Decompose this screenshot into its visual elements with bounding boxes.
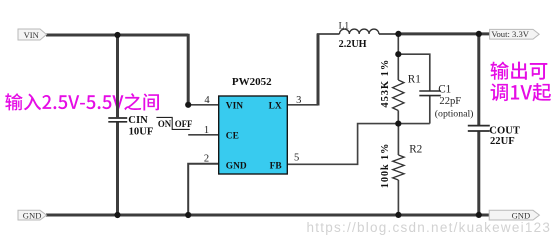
junction: output rail / R1 [395,31,401,37]
svg-text:Vout: 3.3V: Vout: 3.3V [491,29,529,39]
resistor R2 zigzag [393,155,404,180]
capacitor C1 plates [419,91,441,96]
wire: riser to L1 [317,33,340,35]
wire: FB feedback path [287,124,430,165]
junction: GND rail / pin 2 [185,212,191,218]
wire: VIN to CIN top [116,35,119,117]
annotation text: output adjustable line 2 (Chinese) [491,83,551,101]
wire: branch to C1 top [398,54,430,91]
svg-text:VIN: VIN [24,30,40,40]
svg-text:L1: L1 [339,22,350,32]
svg-text:2: 2 [204,153,209,164]
svg-text:453K 1%: 453K 1% [380,59,391,108]
junction: R1 / R2 / FB node [395,121,401,127]
svg-text:2.2UH: 2.2UH [339,39,367,50]
wire: L1 to output rail [379,33,399,35]
wire: stub to pin 4 [188,104,219,106]
wire: R1 bottom lead [397,111,399,124]
svg-text:COUT: COUT [489,126,520,137]
wire: R2 bottom lead [397,180,399,215]
svg-text:R1: R1 [408,73,421,85]
annotation text: input 2.5V-5.5V (Chinese) [5,93,159,110]
capacitor CIN [108,118,127,122]
svg-text:C1: C1 [438,84,451,96]
wire: C1 bottom drop [429,96,431,124]
wire: VIN drop to pin 4 [187,34,190,105]
svg-text:CE: CE [226,131,239,141]
svg-text:LX: LX [269,101,282,111]
port GND tag (left) [18,210,47,220]
wire: GND rail [46,214,489,217]
svg-text:3: 3 [296,95,301,106]
junction: output rail / COUT [476,31,482,37]
junction: pin 4 corner [185,102,191,108]
svg-text:GND: GND [512,211,531,221]
wire: rail to R1 top [397,34,399,80]
annotation text: output adjustable line 1 (Chinese) [491,62,548,80]
junction: GND rail / R2 [395,212,401,218]
port VIN tag [18,29,47,40]
wire: CIN bottom to GND rail [116,122,119,215]
wire: output rail to COUT top [477,34,480,125]
port GND tag (right) [489,210,539,220]
svg-text:ON: ON [158,119,172,129]
svg-text:4: 4 [204,95,210,106]
inductor L1 coil [340,29,379,34]
svg-text:FB: FB [270,161,282,171]
wire: stub to pin 1 (CE) [188,134,219,136]
capacitor COUT plates [468,126,490,131]
junction: GND rail / CIN [114,212,120,218]
svg-text:https://blog.csdn.net/kuakewei: https://blog.csdn.net/kuakewei123 [307,220,552,235]
svg-text:PW2052: PW2052 [232,76,272,88]
junction: GND rail / COUT [476,212,482,218]
junction: VIN rail / CIN [114,32,120,38]
svg-text:22pF: 22pF [439,96,461,107]
resistor R1 zigzag [393,80,404,110]
switch annotation ON/OFF [156,117,189,129]
svg-text:VIN: VIN [226,101,243,111]
svg-text:GND: GND [226,161,247,171]
svg-text:CIN: CIN [128,115,148,126]
svg-text:GND: GND [23,211,42,221]
junction: R1 top / C1 branch [395,51,401,57]
svg-text:10UF: 10UF [129,126,154,137]
svg-text:100k 1%: 100k 1% [380,143,391,189]
wire: LX riser [317,34,320,106]
port Vout tag [490,29,540,39]
svg-text:5: 5 [294,152,299,163]
svg-text:OFF: OFF [175,119,193,129]
svg-text:1: 1 [204,125,209,136]
svg-text:(optional): (optional) [435,109,474,120]
IC U1 PW2052 body [219,96,288,174]
wire: COUT bottom to GND rail [477,131,480,215]
wire: pin 2 to GND rail [188,164,219,215]
wire: VIN rail [46,34,188,37]
wire: R2 top lead [397,124,399,155]
wire: pin 3 (LX) stub [287,104,318,106]
svg-text:R2: R2 [409,144,422,156]
wire: output rail to Vout [398,32,489,35]
svg-text:22UF: 22UF [490,136,515,147]
